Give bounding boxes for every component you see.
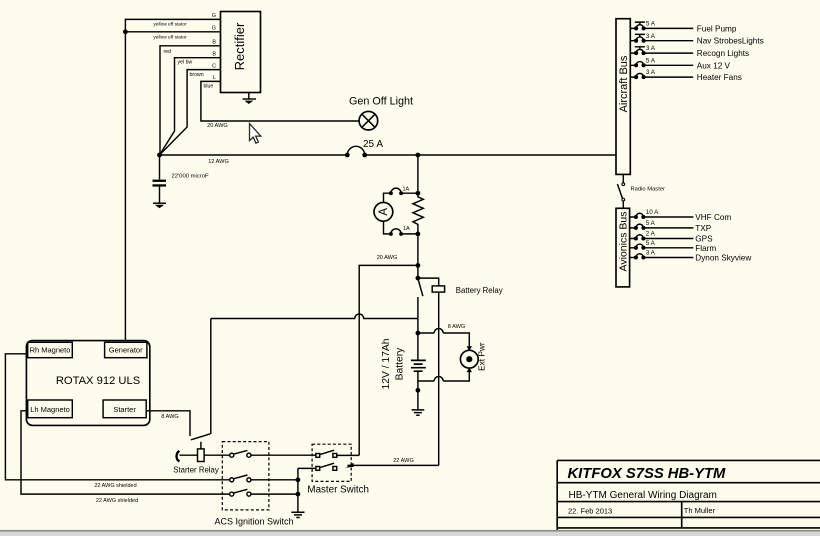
svg-text:3 A: 3 A xyxy=(646,45,656,52)
wire: shunt bottom to relay node xyxy=(417,234,419,266)
node: ground rail row3 xyxy=(296,492,301,497)
sub-box: Rh Magneto xyxy=(28,342,73,357)
wire: fuse to ammeter xyxy=(384,193,391,202)
svg-text:G: G xyxy=(212,26,216,32)
sub-box: Generator xyxy=(105,342,147,357)
svg-text:Recogn Lights: Recogn Lights xyxy=(697,49,749,58)
svg-text:brown: brown xyxy=(190,72,204,78)
svg-text:Rh Magneto: Rh Magneto xyxy=(30,346,71,355)
svg-text:20 AWG: 20 AWG xyxy=(377,255,398,261)
svg-text:22 AWG shielded: 22 AWG shielded xyxy=(96,498,138,504)
ground (capacitor) xyxy=(153,203,166,208)
wire: Radio Master to Avionics Bus xyxy=(622,201,624,208)
svg-text:12V / 17Ah: 12V / 17Ah xyxy=(381,338,392,389)
svg-text:3 A: 3 A xyxy=(646,69,656,76)
wire: rectifier pin C brown to node A xyxy=(160,70,221,155)
ammeter M1 xyxy=(374,202,393,221)
wire: rectifier pin B red to node A xyxy=(160,46,221,155)
switch pole: Master row2 xyxy=(316,463,337,470)
node: bus / battery branch xyxy=(416,153,421,158)
svg-text:Fuel Pump: Fuel Pump xyxy=(697,24,737,33)
svg-text:12 AWG: 12 AWG xyxy=(208,159,229,165)
svg-text:25 A: 25 A xyxy=(363,139,383,150)
svg-text:Rectifier: Rectifier xyxy=(232,22,247,70)
svg-text:1A: 1A xyxy=(403,226,410,232)
wire: Master row2 to battery relay coil (22 AWG, arrow end) xyxy=(346,458,439,468)
wire: battery plus to Ext Pwr (hop over coil wire) xyxy=(418,329,469,347)
svg-text:B: B xyxy=(212,52,216,58)
wire: Master row1 to battery feed riser xyxy=(337,454,360,456)
breaker CB3 3 A xyxy=(630,45,693,55)
wire: relay coil to master switch row2 xyxy=(438,292,440,465)
svg-text:5 A: 5 A xyxy=(646,220,656,227)
svg-text:yel bw: yel bw xyxy=(178,60,193,66)
svg-text:Heater Fans: Heater Fans xyxy=(697,73,742,82)
title block frame xyxy=(557,460,820,530)
svg-text:Radio Master: Radio Master xyxy=(631,187,666,193)
wire: Aircraft Bus to Radio Master switch xyxy=(622,174,624,182)
svg-text:3 A: 3 A xyxy=(646,250,656,257)
node: ground rail row2 xyxy=(296,477,301,482)
wire: Starter to starter relay (8 AWG) xyxy=(146,411,190,436)
wire: starter cable down to starter relay contact xyxy=(210,319,212,435)
switch S3 Radio Master xyxy=(617,183,665,201)
svg-text:ROTAX 912 ULS: ROTAX 912 ULS xyxy=(56,375,140,387)
svg-text:Flarm: Flarm xyxy=(695,244,716,253)
svg-text:10 A: 10 A xyxy=(646,209,659,216)
svg-text:L: L xyxy=(213,75,216,81)
page edge shadow band xyxy=(0,532,820,536)
svg-text:Lh Magneto: Lh Magneto xyxy=(30,405,70,414)
wire: ground rail xyxy=(298,468,316,512)
sub-box: Lh Magneto xyxy=(28,400,73,418)
relay K1 Battery Relay xyxy=(416,276,503,297)
wire: starter cable battery to starter relay (hop over master feed) xyxy=(211,314,418,319)
fuse F6 10 A xyxy=(630,209,694,219)
wire: bus node down to shunt xyxy=(417,155,419,193)
svg-text:8 AWG: 8 AWG xyxy=(161,414,179,420)
switch pole: ACS row2 xyxy=(230,475,251,482)
rectifier U1 xyxy=(221,12,261,93)
svg-text:Nav StrobesLights: Nav StrobesLights xyxy=(697,37,764,46)
wire: stator G2 to rectifier pin G xyxy=(125,31,220,33)
fuse F10 3 A xyxy=(630,250,694,260)
svg-text:Ext Pwr: Ext Pwr xyxy=(477,342,487,371)
svg-text:Starter Relay: Starter Relay xyxy=(173,465,219,474)
svg-text:Dynon Skyview: Dynon Skyview xyxy=(695,254,751,263)
breaker CB1 5 A xyxy=(630,21,693,31)
wire: ammeter to bottom fuse xyxy=(384,221,391,234)
engine unit: ROTAX 912 ULS xyxy=(26,341,149,426)
bus: Avionics Bus xyxy=(616,208,630,287)
switch pole: ACS row3 xyxy=(230,489,251,496)
wire: tap to master switch (down left side) xyxy=(359,265,418,455)
svg-text:Aircraft Bus: Aircraft Bus xyxy=(618,55,630,112)
fuse F1 25 A xyxy=(345,139,383,157)
fuse F2 1A (ammeter top) xyxy=(389,187,410,196)
wire: main bus fuse to Aircraft Bus xyxy=(365,154,616,156)
svg-text:22'000 microF: 22'000 microF xyxy=(172,174,210,180)
svg-text:KITFOX S7SS HB-YTM: KITFOX S7SS HB-YTM xyxy=(568,466,727,482)
wire: ACS row3 to ground rail xyxy=(251,493,298,495)
wire: stator G1 to rectifier pin G xyxy=(125,19,220,342)
svg-text:Generator: Generator xyxy=(109,346,143,355)
ground (rectifier) xyxy=(243,93,257,105)
svg-text:Avionics Bus: Avionics Bus xyxy=(618,212,630,272)
svg-text:5 A: 5 A xyxy=(646,21,656,28)
wire: Rh Magneto to ACS row2 (22 AWG shielded) xyxy=(5,354,229,480)
fuse F3 1A (ammeter bottom) xyxy=(389,226,410,236)
relay K2 Starter Relay xyxy=(173,434,230,475)
svg-text:C: C xyxy=(212,63,216,69)
node: shunt top xyxy=(416,191,421,196)
wire: rectifier pin L blue to Gen Off Light xyxy=(201,81,359,121)
switch pole: ACS row1 xyxy=(230,450,251,457)
svg-text:yellow eff stator: yellow eff stator xyxy=(153,22,187,28)
svg-text:5 A: 5 A xyxy=(646,57,656,64)
connector J1 Ext Pwr xyxy=(460,342,486,372)
switch S1 ACS Ignition (dashed box) xyxy=(214,442,293,527)
svg-text:A: A xyxy=(378,208,390,216)
fuse F8 2 A xyxy=(630,231,694,241)
node A (main DC node) xyxy=(157,153,162,158)
node: stator junction xyxy=(123,29,128,34)
svg-text:B: B xyxy=(212,40,216,46)
switch pole: Master row1 xyxy=(316,450,337,457)
fuse F7 5 A xyxy=(630,220,694,230)
wire: relay contact to battery xyxy=(417,297,419,333)
fuse F5 3 A xyxy=(630,69,693,79)
page edge line xyxy=(0,530,820,532)
wire: ACS row2 to ground rail xyxy=(251,479,298,481)
wire: tap to battery relay contact xyxy=(417,265,419,278)
svg-text:VHF Com: VHF Com xyxy=(695,213,731,222)
svg-text:3 A: 3 A xyxy=(646,33,656,40)
svg-text:22 AWG shielded: 22 AWG shielded xyxy=(94,483,136,489)
node: master feed tap xyxy=(416,263,421,268)
svg-text:22 AWG: 22 AWG xyxy=(393,458,414,464)
svg-text:2 A: 2 A xyxy=(646,231,656,238)
svg-text:HB-YTM General Wiring Diagram: HB-YTM General Wiring Diagram xyxy=(569,490,717,501)
wire: shunt top to ammeter fuse xyxy=(401,192,418,194)
svg-text:blue: blue xyxy=(204,84,214,90)
ground (ignition/master) xyxy=(291,512,304,517)
mouse cursor xyxy=(250,124,261,144)
svg-text:8 AWG: 8 AWG xyxy=(448,324,466,330)
breaker CB2 3 A xyxy=(630,33,693,43)
svg-text:Master Switch: Master Switch xyxy=(307,485,369,496)
svg-text:Gen Off Light: Gen Off Light xyxy=(349,96,413,108)
svg-text:yellow eff stator: yellow eff stator xyxy=(153,35,187,41)
wire: rectifier pin B yel bw to node A xyxy=(160,58,221,155)
fuse F9 5 A xyxy=(630,240,694,250)
svg-text:Aux 12 V: Aux 12 V xyxy=(697,61,731,70)
battery BT1 12V / 17Ah xyxy=(381,333,426,410)
svg-text:red: red xyxy=(164,49,172,55)
svg-text:Th Muller: Th Muller xyxy=(684,506,716,515)
node: battery plus xyxy=(416,331,421,336)
lamp: Gen Off Light xyxy=(349,96,413,130)
bus: Aircraft Bus xyxy=(616,19,630,175)
wire: main bus node A to 25A fuse xyxy=(160,154,348,156)
switch S2 Master Switch (dashed box) xyxy=(307,444,369,495)
svg-text:TXP: TXP xyxy=(695,224,711,233)
fuse F4 5 A xyxy=(630,57,693,67)
svg-text:ACS Ignition Switch: ACS Ignition Switch xyxy=(214,516,293,526)
wire: ACS row1 to Master row1 xyxy=(251,454,316,456)
svg-text:20 AWG: 20 AWG xyxy=(207,123,228,129)
svg-text:Battery: Battery xyxy=(394,347,405,380)
wire: Lh Magneto to ACS row3 (22 AWG shielded) xyxy=(21,411,230,494)
wire: fuse to shunt bottom xyxy=(401,233,418,235)
svg-text:Starter: Starter xyxy=(113,405,136,414)
svg-text:22. Feb 2013: 22. Feb 2013 xyxy=(568,507,612,516)
svg-text:G: G xyxy=(212,13,216,19)
svg-text:1A: 1A xyxy=(403,187,410,193)
node: shunt bottom xyxy=(416,232,421,237)
svg-text:GPS: GPS xyxy=(695,235,713,244)
node: battery minus xyxy=(416,388,421,393)
capacitor C1 22'000 microF xyxy=(153,155,210,203)
svg-text:5 A: 5 A xyxy=(646,240,656,247)
wire: Ext Pwr return to battery minus (hop) xyxy=(418,372,469,381)
sub-box: Starter xyxy=(103,400,146,418)
svg-text:Battery Relay: Battery Relay xyxy=(456,286,503,295)
ground (battery) xyxy=(412,410,425,415)
resistor R1 shunt xyxy=(413,193,423,234)
